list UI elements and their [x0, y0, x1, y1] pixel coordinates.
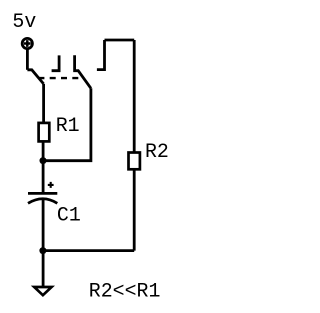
- bottom rail: [43, 249, 134, 252]
- wire C1 to node B: [42, 199, 45, 250]
- wire terminal to switch: [26, 49, 29, 70]
- resistor R2: [129, 153, 140, 170]
- svg-text:R2: R2: [145, 140, 169, 163]
- wire R1 to node A: [42, 141, 45, 160]
- ground: [34, 287, 51, 295]
- wire blade to R1: [42, 84, 45, 123]
- node A junction dot: [40, 157, 47, 164]
- power terminal 5v: [22, 38, 32, 48]
- contact 1 stub: [52, 55, 60, 70]
- wire R2 to bottom rail: [133, 169, 136, 250]
- capacitor C1 top plate: [28, 192, 57, 195]
- wire rail to R2: [133, 40, 136, 153]
- capacitor C1 bottom plate (arc): [28, 199, 57, 204]
- dashed linkage: [38, 77, 80, 79]
- svg-text:R1: R1: [56, 114, 80, 137]
- node B junction dot: [39, 247, 46, 254]
- top rail: [105, 39, 135, 42]
- wire pole2 blade end to node A: [43, 88, 91, 160]
- resistor R1: [39, 123, 50, 141]
- wire node A to C1: [42, 161, 45, 193]
- svg-text:5v: 5v: [12, 10, 36, 33]
- capacitor C1 plus sign: [48, 182, 54, 188]
- switch pole 1 (blade): [27, 70, 43, 84]
- switch pole 2 (blade): [75, 55, 91, 88]
- svg-text:C1: C1: [57, 203, 81, 226]
- contact 2: [97, 40, 105, 70]
- svg-text:R2<<R1: R2<<R1: [89, 280, 161, 303]
- wire node B to ground: [42, 251, 45, 287]
